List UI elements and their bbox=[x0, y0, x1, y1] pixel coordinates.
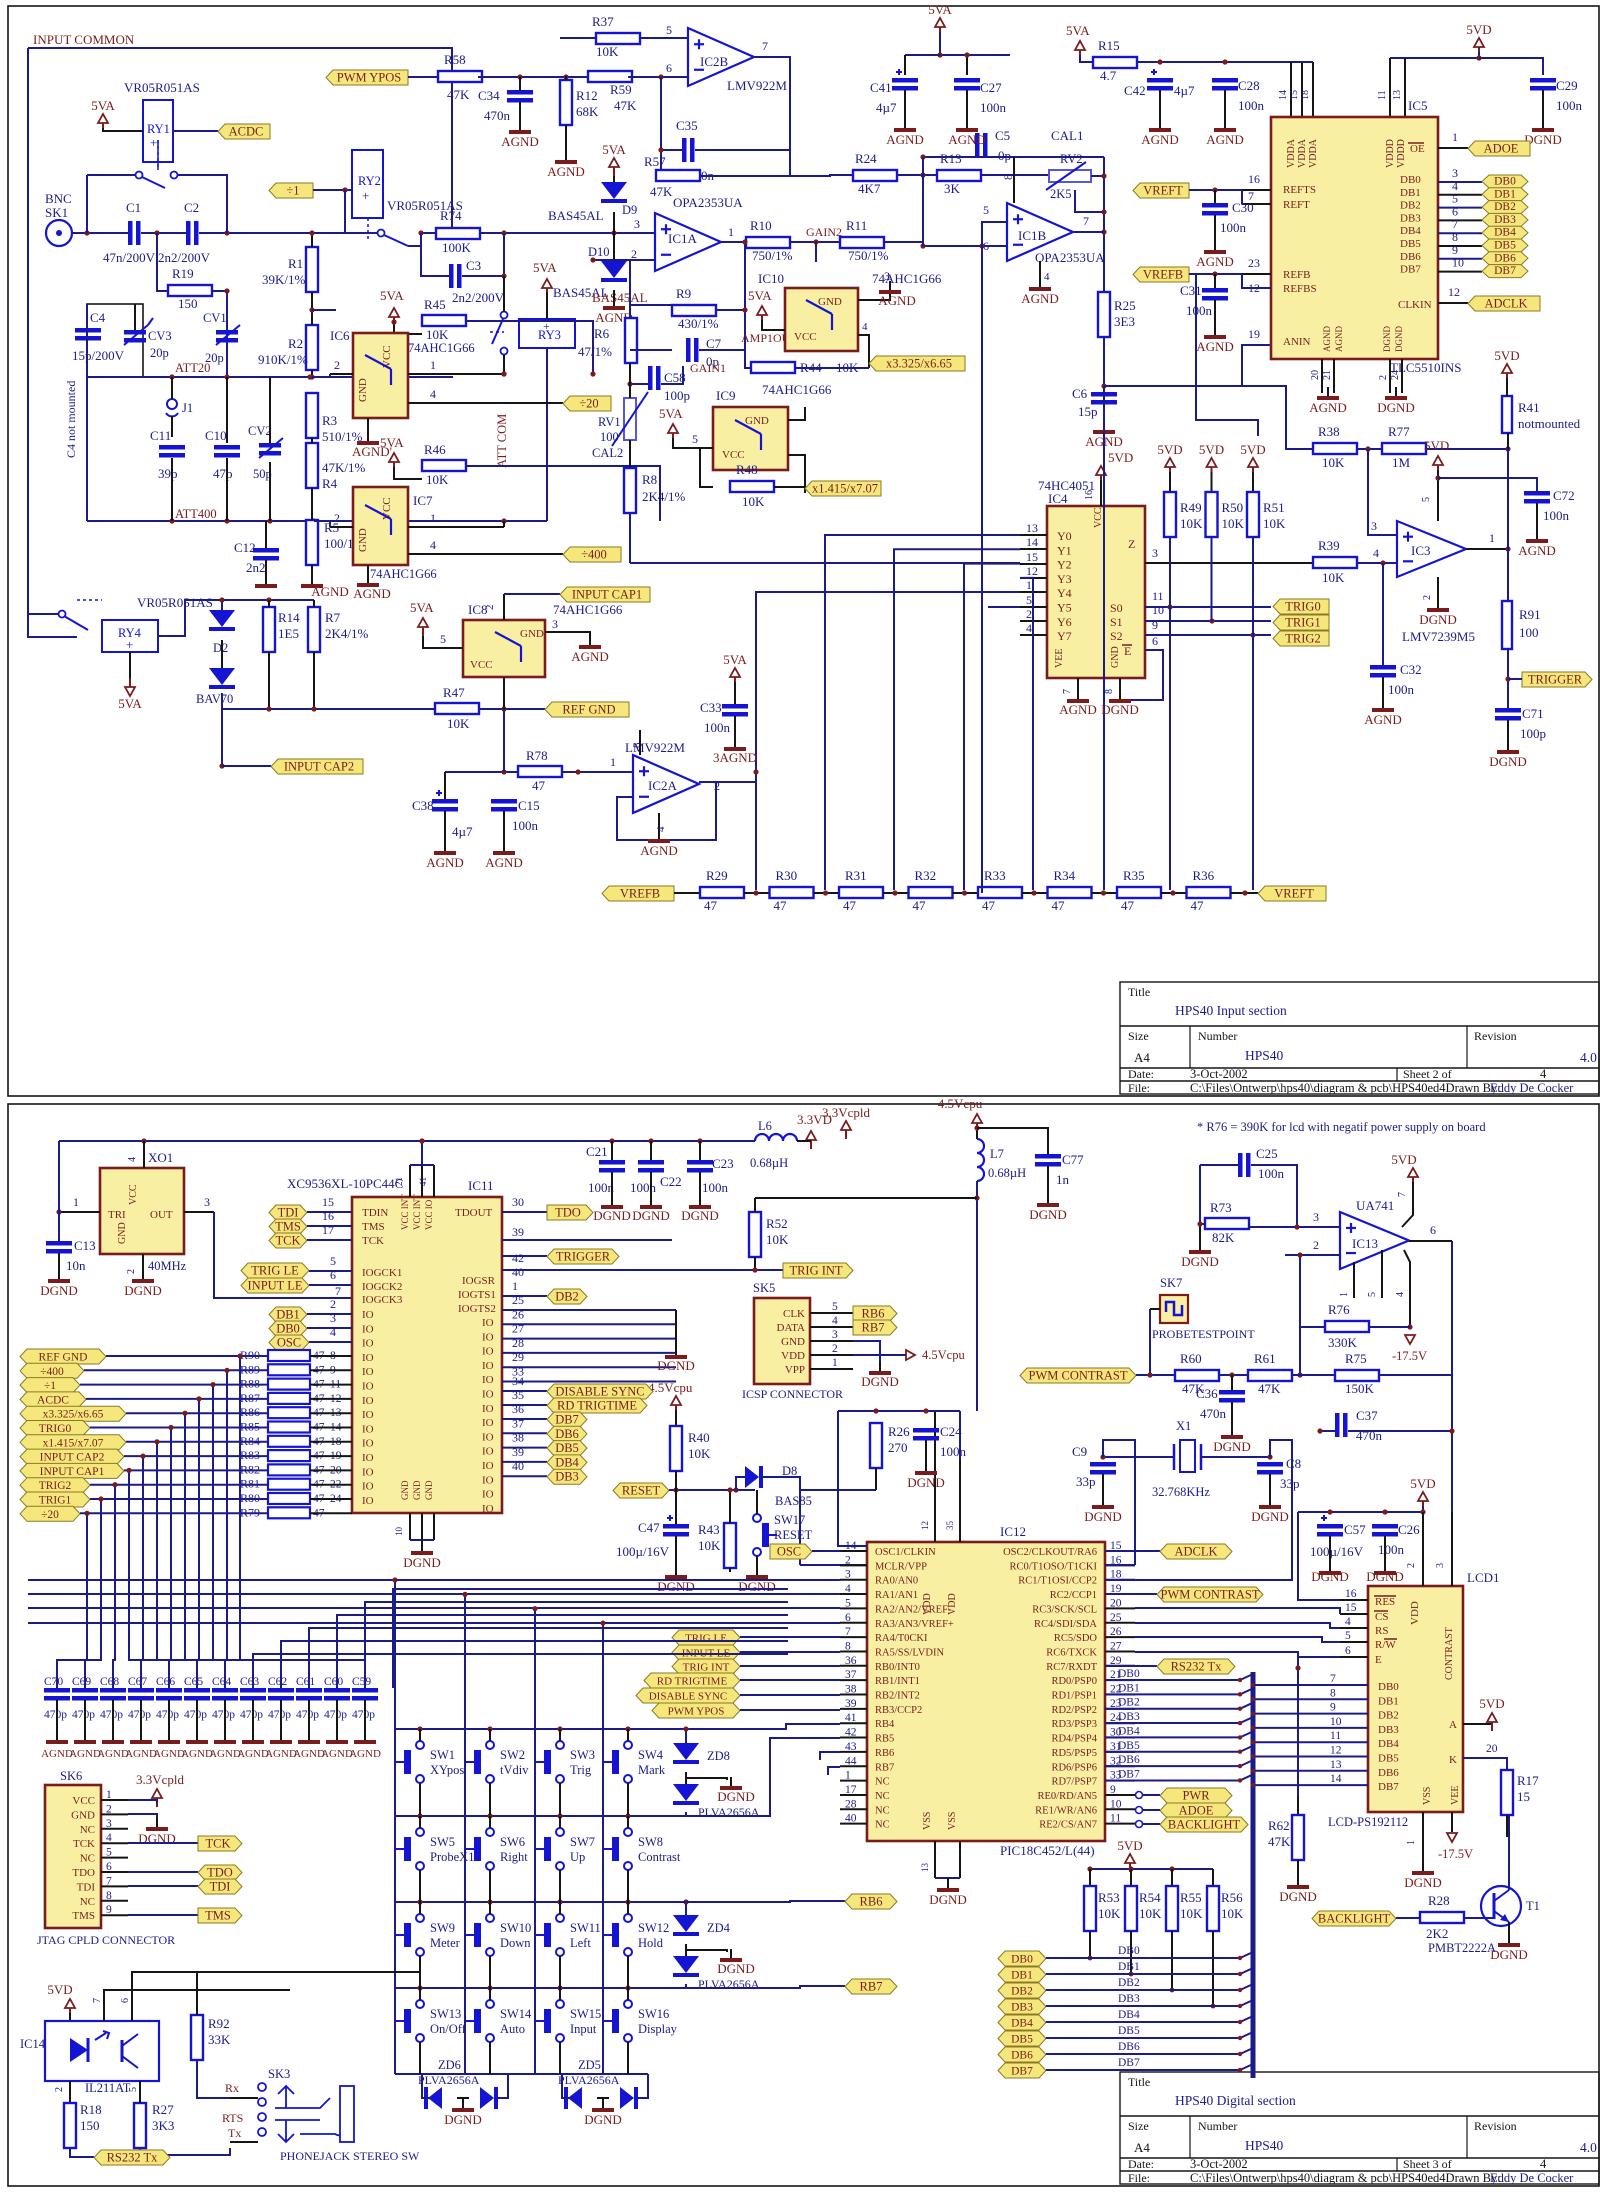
wire bbox=[627, 1956, 629, 1988]
svg-text:RB6: RB6 bbox=[875, 1748, 894, 1759]
svg-text:R58: R58 bbox=[444, 52, 466, 67]
resistor R6 bbox=[625, 318, 637, 363]
svg-text:RD6/PSP6: RD6/PSP6 bbox=[1051, 1762, 1097, 1773]
power 3.3Vcpld bbox=[156, 1797, 158, 1807]
svg-text:GND: GND bbox=[781, 1336, 805, 1348]
wire pin4 bbox=[503, 677, 505, 709]
resistor R91 bbox=[1502, 601, 1512, 649]
diode ZD5 left bbox=[568, 2087, 582, 2109]
svg-text:14: 14 bbox=[1278, 90, 1289, 100]
svg-text:470p: 470p bbox=[212, 1709, 235, 1721]
svg-text:2: 2 bbox=[330, 1297, 336, 1311]
svg-text:1: 1 bbox=[832, 1357, 838, 1369]
ground DGND bbox=[1269, 1496, 1271, 1505]
svg-text:6: 6 bbox=[1345, 1645, 1351, 1657]
switch symbol IC10 bbox=[806, 300, 832, 314]
wire pin bbox=[840, 1593, 867, 1595]
svg-text:10K: 10K bbox=[1180, 1906, 1203, 1921]
svg-text:DB5: DB5 bbox=[1118, 1740, 1140, 1752]
svg-text:35: 35 bbox=[512, 1388, 524, 1402]
ground DGND bbox=[602, 2099, 604, 2108]
resistor R58 bbox=[438, 71, 482, 82]
resistor R87 bbox=[268, 1393, 310, 1404]
svg-text:R57: R57 bbox=[644, 154, 666, 169]
resistor R79 bbox=[268, 1507, 310, 1518]
svg-text:Number: Number bbox=[1198, 1029, 1237, 1043]
svg-text:DB1: DB1 bbox=[1118, 1961, 1140, 1973]
wire bbox=[1119, 678, 1121, 700]
wire bbox=[311, 565, 313, 580]
wire bbox=[310, 1398, 352, 1400]
svg-text:C21: C21 bbox=[586, 1144, 608, 1159]
svg-text:IC5: IC5 bbox=[1408, 98, 1428, 113]
svg-text:2: 2 bbox=[1313, 1238, 1319, 1252]
svg-text:GND: GND bbox=[424, 1480, 434, 1500]
wire ANIN to R38 bbox=[1104, 386, 1313, 449]
switch SW17 bbox=[753, 1514, 761, 1522]
wire bbox=[1135, 1440, 1292, 1580]
ground DGND bbox=[947, 1879, 949, 1888]
trimmer CV3 bbox=[124, 330, 146, 335]
svg-text:4: 4 bbox=[1044, 271, 1050, 283]
resistor R9 bbox=[672, 305, 716, 316]
svg-text:16: 16 bbox=[322, 1209, 334, 1223]
svg-text:JTAG CPLD CONNECTOR: JTAG CPLD CONNECTOR bbox=[37, 1933, 175, 1947]
svg-text:5: 5 bbox=[1421, 497, 1432, 502]
svg-text:47: 47 bbox=[1052, 898, 1066, 913]
wire bbox=[669, 1489, 755, 1491]
net label ACDC bbox=[173, 130, 218, 132]
svg-text:750/1%: 750/1% bbox=[848, 248, 889, 263]
svg-text:100n: 100n bbox=[588, 1180, 615, 1195]
wire bbox=[269, 462, 271, 521]
resistor R77 bbox=[1382, 443, 1426, 454]
diode ZD5 right bbox=[620, 2087, 634, 2109]
svg-text:SK7: SK7 bbox=[1160, 1276, 1182, 1290]
svg-text:DB7: DB7 bbox=[555, 1413, 579, 1427]
svg-text:100: 100 bbox=[600, 430, 619, 444]
svg-text:VCC: VCC bbox=[722, 449, 745, 461]
wire bbox=[503, 355, 505, 374]
svg-text:A4: A4 bbox=[1134, 1050, 1150, 1065]
ground AGND bbox=[280, 1736, 282, 1740]
wire DB1 bbox=[1438, 194, 1482, 196]
op-amp IC2A bbox=[633, 755, 699, 813]
wire pin2 bbox=[330, 373, 353, 375]
wire DB3 bbox=[1105, 1717, 1253, 1723]
wire bbox=[497, 2074, 508, 2098]
capacitor C41 bbox=[892, 78, 918, 83]
svg-text:R61: R61 bbox=[1254, 1351, 1276, 1366]
wire bbox=[489, 1988, 491, 2000]
svg-text:R34: R34 bbox=[1054, 868, 1076, 883]
wire bbox=[1348, 1430, 1452, 1432]
wire bbox=[1212, 1869, 1214, 1886]
svg-text:TMS: TMS bbox=[275, 1220, 301, 1234]
net label DB6 bbox=[547, 1426, 587, 1441]
svg-text:IO: IO bbox=[482, 1460, 494, 1472]
svg-text:10K: 10K bbox=[426, 472, 449, 487]
wire bbox=[502, 1404, 547, 1406]
svg-text:AGND: AGND bbox=[1196, 339, 1234, 354]
wire bbox=[101, 1799, 128, 1801]
capacitor C29 bbox=[1530, 78, 1556, 83]
wire bbox=[734, 716, 736, 744]
wire net Y3 bbox=[1020, 578, 1033, 890]
svg-text:3AGND: 3AGND bbox=[713, 750, 757, 765]
wire DB7 bbox=[1438, 271, 1482, 273]
wire bbox=[648, 1812, 686, 1816]
wire bbox=[393, 1589, 788, 1688]
svg-text:DB1: DB1 bbox=[1011, 1970, 1033, 1982]
wire bbox=[502, 1475, 547, 1477]
svg-text:C65: C65 bbox=[184, 1676, 203, 1688]
wire pin bbox=[1105, 1650, 1135, 1652]
capacitor C23 bbox=[687, 1160, 713, 1165]
svg-text:L6: L6 bbox=[758, 1119, 772, 1133]
wire bbox=[565, 125, 567, 158]
svg-text:Z: Z bbox=[1128, 537, 1135, 551]
svg-text:21: 21 bbox=[1322, 370, 1333, 380]
wire pin bbox=[840, 1722, 867, 1724]
switch SW12 bbox=[624, 1914, 632, 1922]
wire VSS stubs bbox=[934, 1841, 936, 1878]
wire bbox=[1047, 1166, 1049, 1200]
inductor L7 bbox=[977, 1139, 984, 1181]
wire pin bbox=[1105, 1679, 1135, 1681]
wire bbox=[1103, 337, 1105, 392]
wire bbox=[1199, 1165, 1201, 1224]
svg-text:4.0: 4.0 bbox=[1580, 1050, 1597, 1065]
wire bbox=[1080, 55, 1093, 62]
wire bbox=[1214, 190, 1216, 203]
svg-text:E: E bbox=[1124, 644, 1131, 658]
svg-text:5VA: 5VA bbox=[723, 652, 747, 667]
switch RY1 contact bbox=[136, 172, 143, 179]
wire bbox=[1136, 1792, 1143, 1799]
wire bbox=[129, 652, 131, 678]
svg-text:ATT20: ATT20 bbox=[175, 361, 210, 375]
svg-text:DGND: DGND bbox=[1084, 1509, 1122, 1524]
wire bbox=[101, 1871, 128, 1873]
capacitor C9 bbox=[1090, 1462, 1116, 1467]
svg-text:15: 15 bbox=[322, 1195, 334, 1209]
wire bbox=[559, 1988, 561, 2000]
svg-text:OSC: OSC bbox=[777, 1545, 801, 1559]
net label RS232 Tx bbox=[94, 2150, 170, 2165]
svg-text:AGND: AGND bbox=[349, 1748, 381, 1760]
wire bbox=[101, 1842, 128, 1844]
ground DGND bbox=[421, 1542, 423, 1551]
net label TMS bbox=[198, 1908, 242, 1923]
wire bbox=[1103, 404, 1105, 428]
wire bbox=[790, 241, 840, 243]
svg-text:E: E bbox=[1375, 1654, 1382, 1666]
svg-text:DGND: DGND bbox=[632, 1208, 670, 1223]
ground DGND bbox=[156, 1818, 158, 1827]
svg-text:VREFT: VREFT bbox=[1274, 887, 1314, 901]
wire bbox=[627, 1988, 629, 2000]
wire bbox=[1463, 1758, 1507, 1770]
wire bbox=[1426, 448, 1508, 450]
svg-text:1: 1 bbox=[430, 511, 436, 525]
svg-text:11: 11 bbox=[1152, 589, 1164, 603]
svg-text:D9: D9 bbox=[622, 203, 637, 217]
bus DB bbox=[1251, 1672, 1256, 2078]
svg-text:6: 6 bbox=[666, 61, 672, 75]
svg-text:Mark: Mark bbox=[638, 1763, 666, 1777]
wire bbox=[560, 37, 596, 39]
svg-text:RE2/CS/AN7: RE2/CS/AN7 bbox=[1039, 1820, 1097, 1831]
wire bbox=[408, 76, 438, 78]
svg-text:GND: GND bbox=[357, 528, 369, 552]
wire bbox=[310, 1469, 352, 1471]
ground DGND bbox=[925, 1462, 927, 1471]
svg-text:16: 16 bbox=[1345, 1588, 1357, 1600]
resistor R80 bbox=[268, 1493, 310, 1504]
wire bbox=[1321, 359, 1323, 393]
net label INPUT CAP1 bbox=[560, 587, 650, 602]
wire bbox=[1382, 677, 1384, 705]
power 4.5Vcpu arrow right bbox=[906, 1350, 915, 1360]
resistor R8 bbox=[624, 468, 636, 513]
ground AGND bbox=[252, 1736, 254, 1740]
svg-text:4µ7: 4µ7 bbox=[1174, 83, 1195, 98]
svg-text:4: 4 bbox=[127, 1157, 138, 1162]
net label DB1 bbox=[269, 1307, 307, 1322]
svg-text:1: 1 bbox=[430, 358, 436, 372]
svg-text:OUT: OUT bbox=[150, 1209, 173, 1221]
resistor R29 bbox=[700, 887, 744, 898]
svg-text:28: 28 bbox=[512, 1336, 524, 1350]
svg-text:SW3: SW3 bbox=[570, 1748, 595, 1762]
svg-text:15: 15 bbox=[1289, 90, 1300, 100]
net label DB2 bbox=[998, 1983, 1046, 1998]
svg-text:100n: 100n bbox=[1543, 508, 1570, 523]
svg-text:GAIN1: GAIN1 bbox=[690, 361, 726, 375]
svg-text:3-Oct-2002: 3-Oct-2002 bbox=[1190, 2157, 1248, 2171]
svg-text:R74: R74 bbox=[440, 208, 462, 223]
wire bbox=[307, 1211, 352, 1213]
switch SW10 bbox=[486, 1914, 494, 1922]
net label VREFB bbox=[1133, 267, 1189, 282]
ground DGND bbox=[1542, 119, 1544, 128]
wire bbox=[314, 521, 330, 527]
wire bbox=[419, 1988, 421, 2000]
wire drop bbox=[171, 1428, 225, 1689]
wire bbox=[196, 1700, 198, 1736]
svg-text:10K: 10K bbox=[742, 494, 765, 509]
svg-text:ATT COM: ATT COM bbox=[495, 414, 509, 468]
svg-text:VDDD: VDDD bbox=[1385, 139, 1396, 168]
wire IC4 Y5 bbox=[1020, 606, 1047, 608]
svg-text:R38: R38 bbox=[1318, 424, 1340, 439]
svg-text:10K: 10K bbox=[698, 1538, 721, 1553]
wire bbox=[559, 1956, 561, 1988]
capacitor C42 bbox=[1147, 78, 1173, 83]
svg-text:1: 1 bbox=[73, 1195, 79, 1209]
switch SW2 bbox=[486, 1741, 494, 1749]
svg-text:10K: 10K bbox=[1139, 1906, 1162, 1921]
svg-text:RD TRIGTIME: RD TRIGTIME bbox=[557, 1399, 637, 1413]
svg-text:VCC INT: VCC INT bbox=[412, 1194, 422, 1230]
wire bbox=[795, 367, 869, 369]
svg-text:Tx: Tx bbox=[228, 2126, 241, 2140]
svg-text:R35: R35 bbox=[1123, 868, 1145, 883]
wire pin bbox=[840, 1650, 867, 1652]
svg-text:1: 1 bbox=[1489, 531, 1495, 545]
net label TRIG0 bbox=[20, 1421, 90, 1436]
wire bbox=[628, 76, 688, 78]
svg-text:+: + bbox=[150, 135, 157, 150]
svg-text:36: 36 bbox=[512, 1402, 524, 1416]
wire pin3 bbox=[545, 632, 590, 642]
wire bbox=[1242, 189, 1271, 191]
wire col verticals bbox=[394, 1580, 396, 2074]
net label TRIG2 bbox=[1273, 631, 1329, 646]
wire bbox=[904, 90, 906, 125]
power 5VA bbox=[672, 432, 674, 442]
svg-text:HPS40 Digital section: HPS40 Digital section bbox=[1175, 2093, 1296, 2108]
wire bbox=[230, 2097, 258, 2099]
wire bbox=[143, 1141, 145, 1168]
svg-text:INPUT CAP2: INPUT CAP2 bbox=[284, 760, 354, 774]
svg-text:SW10: SW10 bbox=[500, 1921, 531, 1935]
svg-text:33p: 33p bbox=[1076, 1474, 1096, 1489]
svg-text:C60: C60 bbox=[324, 1676, 343, 1688]
wire bbox=[674, 892, 700, 894]
svg-text:VCC: VCC bbox=[794, 331, 817, 343]
wire bbox=[611, 1141, 613, 1160]
wire IC4 Y2 bbox=[1020, 563, 1047, 565]
svg-text:IO: IO bbox=[482, 1474, 494, 1486]
wire ANIN bbox=[1104, 345, 1271, 386]
wire bbox=[28, 1579, 840, 1581]
svg-text:10K: 10K bbox=[1322, 455, 1345, 470]
wire DB6 bbox=[1105, 1760, 1253, 1766]
svg-text:TDI: TDI bbox=[278, 1206, 299, 1220]
switch SW4 bbox=[624, 1741, 632, 1749]
wire bbox=[419, 1956, 421, 1988]
ground AGND' bbox=[367, 432, 369, 441]
svg-text:33p: 33p bbox=[1280, 1476, 1300, 1491]
ground AGND bbox=[1224, 119, 1226, 128]
net label DB4 bbox=[998, 2015, 1046, 2030]
svg-text:SW16: SW16 bbox=[638, 2007, 669, 2021]
svg-text:9: 9 bbox=[1330, 1702, 1336, 1714]
wire bbox=[640, 37, 688, 39]
wire bbox=[629, 440, 631, 468]
net label ÷20 bbox=[20, 1506, 80, 1521]
wire bbox=[489, 1956, 491, 1988]
wire bbox=[90, 1484, 268, 1486]
svg-text:100n: 100n bbox=[980, 100, 1007, 115]
resistor R13 bbox=[937, 170, 981, 181]
wire bbox=[502, 1255, 547, 1257]
svg-text:IC7: IC7 bbox=[413, 493, 433, 508]
svg-text:RA5/SS/LVDIN: RA5/SS/LVDIN bbox=[875, 1647, 944, 1658]
svg-text:R30: R30 bbox=[776, 868, 798, 883]
svg-text:RB3/CCP2: RB3/CCP2 bbox=[875, 1705, 922, 1716]
svg-text:Eddy De Cocker: Eddy De Cocker bbox=[1490, 1081, 1574, 1095]
wire out bbox=[1073, 231, 1104, 233]
svg-text:VDDA: VDDA bbox=[1297, 138, 1308, 168]
svg-text:AGND: AGND bbox=[501, 134, 539, 149]
svg-text:SW15: SW15 bbox=[570, 2007, 601, 2021]
wire bbox=[140, 2148, 230, 2155]
capacitor C72 bbox=[1524, 491, 1550, 496]
svg-text:DB5: DB5 bbox=[1011, 2034, 1033, 2046]
crystal X1 bbox=[1173, 1444, 1176, 1470]
svg-text:DGND: DGND bbox=[1404, 1875, 1442, 1890]
svg-text:J1: J1 bbox=[182, 401, 193, 415]
wire bbox=[1137, 61, 1295, 63]
svg-text:5VA: 5VA bbox=[1066, 23, 1090, 38]
svg-text:6: 6 bbox=[106, 1861, 112, 1873]
svg-text:PWM YPOS: PWM YPOS bbox=[337, 71, 402, 85]
svg-text:12: 12 bbox=[1248, 281, 1260, 295]
svg-text:NC: NC bbox=[875, 1820, 890, 1831]
wire bbox=[1136, 1374, 1175, 1376]
ground DGND bbox=[1231, 1426, 1233, 1435]
svg-text:Y4: Y4 bbox=[1057, 586, 1072, 600]
wire bbox=[740, 1651, 840, 1653]
wire bbox=[140, 1700, 142, 1736]
wire bbox=[337, 1615, 788, 1688]
svg-text:470p: 470p bbox=[156, 1709, 179, 1721]
svg-text:ACDC: ACDC bbox=[229, 125, 264, 139]
svg-text:CAL2: CAL2 bbox=[592, 446, 623, 460]
wire bbox=[686, 1778, 727, 1780]
wire bbox=[268, 600, 270, 607]
wire bbox=[196, 1972, 198, 2015]
svg-text:4: 4 bbox=[430, 387, 436, 401]
svg-text:IC13: IC13 bbox=[1352, 1236, 1378, 1251]
wire pin bbox=[1105, 1780, 1135, 1782]
net label RD TRIGTIME bbox=[644, 1673, 740, 1688]
wire DB1 bbox=[1105, 1688, 1253, 1694]
svg-text:470p: 470p bbox=[268, 1709, 291, 1721]
svg-text:VCC INT: VCC INT bbox=[400, 1194, 410, 1230]
svg-text:DISABLE SYNC: DISABLE SYNC bbox=[555, 1385, 644, 1399]
wire bbox=[1379, 1374, 1452, 1376]
wire bbox=[700, 150, 790, 176]
svg-text:R59: R59 bbox=[610, 82, 632, 97]
wire bbox=[1046, 2000, 1253, 2006]
wire bbox=[613, 176, 615, 182]
wire bbox=[1149, 1309, 1151, 1375]
svg-text:PHONEJACK STEREO SW: PHONEJACK STEREO SW bbox=[280, 2149, 420, 2163]
svg-text:R52: R52 bbox=[766, 1216, 788, 1231]
wire pin bbox=[1105, 1765, 1135, 1767]
svg-text:IO: IO bbox=[482, 1331, 494, 1343]
svg-text:R46: R46 bbox=[424, 442, 446, 457]
svg-text:MCLR/VPP: MCLR/VPP bbox=[875, 1561, 927, 1572]
svg-text:40MHz: 40MHz bbox=[148, 1259, 187, 1273]
wire IO bbox=[502, 1338, 676, 1340]
wire bbox=[1508, 1815, 1510, 1890]
svg-text:DGND: DGND bbox=[1181, 1254, 1219, 1269]
wire DB2 bbox=[1105, 1703, 1253, 1709]
svg-text:100n: 100n bbox=[940, 1444, 967, 1459]
wire bbox=[810, 1354, 853, 1356]
resistor R53 bbox=[1084, 1886, 1096, 1931]
svg-text:C26: C26 bbox=[1398, 1522, 1420, 1537]
net label TRIGGER bbox=[1522, 672, 1592, 687]
relay RY2 bbox=[352, 150, 383, 218]
svg-text:RD5/PSP5: RD5/PSP5 bbox=[1051, 1748, 1097, 1759]
svg-text:Date:: Date: bbox=[1128, 1067, 1154, 1081]
